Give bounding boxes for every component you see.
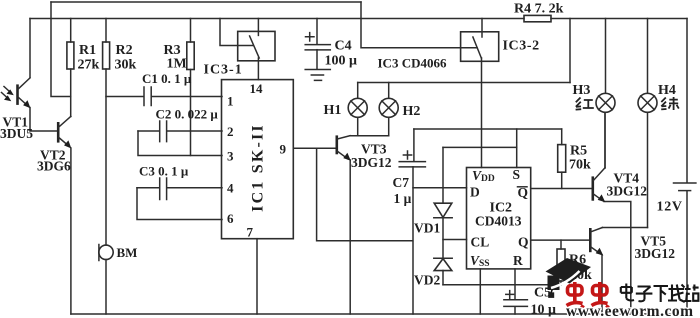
lamp H3 xyxy=(596,93,615,112)
label C7 value xyxy=(393,175,412,206)
IC2 label IC2 xyxy=(490,201,513,216)
label H3 xyxy=(573,83,591,98)
IC2 label VSS xyxy=(470,253,490,269)
svg-text:H2: H2 xyxy=(403,104,421,119)
IC1 pin 3 xyxy=(227,149,234,164)
wire battery negative down xyxy=(686,191,688,314)
svg-text:CL: CL xyxy=(471,235,490,250)
wire H1 bottom xyxy=(357,118,359,136)
IC1 pin 14 xyxy=(250,81,264,96)
IC2 label Q xyxy=(518,235,529,250)
label H1 xyxy=(324,103,342,118)
wire H2 top xyxy=(388,83,390,99)
wire R4 node drop to lamp bar xyxy=(569,19,571,83)
svg-text:C3 0. 1 μ: C3 0. 1 μ xyxy=(139,164,189,179)
resistor R6 xyxy=(557,249,565,281)
svg-text:BM: BM xyxy=(117,245,138,260)
wire IC1 pin9 to VT3 base xyxy=(293,147,336,149)
svg-text:30k: 30k xyxy=(115,58,137,73)
IC1 pin 7 xyxy=(247,225,254,240)
label R5 70k xyxy=(569,144,591,173)
watermark graduation cap xyxy=(546,258,592,298)
wire VT1 emitter to VT2 base xyxy=(30,108,58,132)
IC2 label S xyxy=(513,167,521,182)
label VT5 3DG12 xyxy=(635,234,676,262)
analog switch IC3-1 box xyxy=(238,31,275,60)
wire pin9 node down to D/CL row xyxy=(317,148,413,241)
svg-text:1M: 1M xyxy=(167,57,187,72)
label IC3 CD4066 xyxy=(378,56,447,71)
wire R2 bottom to BM xyxy=(105,69,107,245)
label R2 30k xyxy=(115,43,137,73)
svg-text:2: 2 xyxy=(227,124,234,139)
svg-text:6: 6 xyxy=(227,211,234,226)
resistor R3 xyxy=(187,42,194,70)
svg-text:1 μ: 1 μ xyxy=(394,191,412,206)
label VT2 3DG6 xyxy=(37,148,71,174)
ground (C4) xyxy=(305,70,330,81)
wire H3 to VT4 collector xyxy=(604,113,606,168)
svg-text:IC3 CD4066: IC3 CD4066 xyxy=(378,56,447,71)
label C2 value xyxy=(156,107,219,122)
IC2 label CL xyxy=(471,235,490,250)
wire lamp supply bar xyxy=(358,82,570,84)
lamp H2 xyxy=(379,98,398,117)
wire CL pin xyxy=(443,239,467,241)
svg-text:R1: R1 xyxy=(79,43,96,58)
wire R3 top xyxy=(190,19,192,43)
svg-text:10 μ: 10 μ xyxy=(531,303,557,318)
lamp H1 xyxy=(348,98,367,117)
wire VT2 emitter down xyxy=(70,148,72,314)
svg-text:IC1 SK-II: IC1 SK-II xyxy=(250,123,267,212)
svg-text:3DG12: 3DG12 xyxy=(607,184,648,199)
label R6 10k xyxy=(569,253,592,284)
label C5 value xyxy=(531,286,557,318)
wire IC3-1 output to IC1 pin14 xyxy=(257,58,259,80)
svg-text:R2: R2 xyxy=(116,43,133,58)
wire IC1 pin7 to bottom rail xyxy=(256,239,258,314)
label C3 value xyxy=(139,164,189,179)
IC2 label VDD xyxy=(472,168,495,184)
label R4 7.2k xyxy=(514,2,564,17)
svg-text:VD1: VD1 xyxy=(414,221,440,236)
wire VT5 collector row xyxy=(602,227,647,229)
wire top rail 1 xyxy=(51,1,361,3)
svg-text:D: D xyxy=(470,185,480,200)
wire C3 loop to pin6 xyxy=(137,188,222,220)
svg-text:IC3-2: IC3-2 xyxy=(503,39,540,54)
wire rail1 drop to IC3-2 input xyxy=(361,2,477,48)
wire VT3 emitter down xyxy=(349,160,351,314)
wire Q to VT5 base xyxy=(531,239,590,241)
phototransistor VT1 xyxy=(2,78,31,108)
svg-text:1: 1 xyxy=(227,94,234,109)
IC2 label CD4013 xyxy=(475,214,522,229)
wire R5 top lead xyxy=(561,129,563,145)
wire row y147.4 VD1 to S line xyxy=(443,146,517,148)
svg-text:H3: H3 xyxy=(573,83,591,98)
wire C7 minus down to rail xyxy=(412,167,414,314)
lamp H4 xyxy=(638,93,657,112)
wire IC3-2 control stub xyxy=(481,19,483,38)
capacitor C2 xyxy=(160,121,167,142)
svg-text:C1 0. 1 μ: C1 0. 1 μ xyxy=(142,71,192,86)
svg-text:S: S xyxy=(513,167,521,182)
wire rail1 left drop x=51 xyxy=(51,2,71,97)
svg-text:SS: SS xyxy=(479,259,490,269)
label VD2 xyxy=(414,273,440,288)
wire bottom node row y284.8 xyxy=(443,284,561,286)
wire rail2 to IC3-1 input xyxy=(220,19,253,46)
wire C4 top xyxy=(316,19,318,45)
svg-text:70k: 70k xyxy=(569,158,591,173)
wire VT5 emitter down xyxy=(601,255,603,314)
svg-text:DD: DD xyxy=(481,174,495,184)
watermark bug 2 (chong) xyxy=(592,282,610,308)
wire C7 plus riser xyxy=(413,129,415,161)
capacitor C1 xyxy=(144,87,151,106)
watermark text dianzixiazaizhan xyxy=(621,284,699,303)
wire VT4 emitter node down to rail xyxy=(604,202,631,315)
label IC1 SK-II (rotated) xyxy=(250,123,267,212)
svg-text:4: 4 xyxy=(227,181,234,196)
wire node row y129 C7 to R5 xyxy=(414,128,562,130)
capacitor C5 (electrolytic, plus sign) xyxy=(504,291,528,307)
svg-text:Q: Q xyxy=(518,235,529,250)
transistor VT5 xyxy=(590,228,603,256)
wire R2 top xyxy=(105,19,107,43)
svg-text:100 μ: 100 μ xyxy=(325,54,358,69)
IC1 pin 6 xyxy=(227,211,234,226)
wire C2 loop to pin3 xyxy=(138,131,222,156)
wire bottom rail xyxy=(71,313,687,315)
label BM xyxy=(117,245,138,260)
svg-text:www.eeworm.com: www.eeworm.com xyxy=(566,303,694,318)
label C4 value xyxy=(325,39,358,69)
watermark bug 1 (chong) xyxy=(567,282,585,308)
battery GB 12V xyxy=(674,183,696,191)
svg-text:3DU5: 3DU5 xyxy=(0,126,33,141)
wire VD1 top lead xyxy=(442,147,444,203)
label R1 27k xyxy=(78,43,100,73)
label VT4 3DG12 xyxy=(607,171,648,199)
svg-text:H1: H1 xyxy=(324,103,342,118)
wire C5 to rail xyxy=(514,307,516,314)
wire H3 top xyxy=(605,19,607,94)
svg-text:27k: 27k xyxy=(78,58,100,73)
label VT1 3DU5 xyxy=(0,115,33,142)
svg-text:12V: 12V xyxy=(657,200,683,215)
wire BM to bottom rail xyxy=(105,260,107,315)
wire IC1 pin2 through C2 xyxy=(138,130,222,132)
label IC3-1 xyxy=(204,63,243,78)
svg-text:R: R xyxy=(513,253,523,268)
wire D pin xyxy=(413,187,467,189)
capacitor C4 (electrolytic, plus sign) xyxy=(305,33,330,50)
svg-text:3DG12: 3DG12 xyxy=(351,155,392,170)
diode VD2 xyxy=(434,258,452,270)
label H4 xyxy=(658,83,676,98)
wire H4 top xyxy=(647,19,649,94)
wire lamp bottom bar xyxy=(350,135,389,137)
label H2 xyxy=(403,104,421,119)
wire R1 top xyxy=(70,19,72,43)
wire top rail 2 right of R4 xyxy=(551,18,687,20)
resistor R2 xyxy=(103,42,110,69)
wire R6 bottom lead xyxy=(560,281,562,285)
svg-text:3DG12: 3DG12 xyxy=(635,246,676,261)
wire IC1 pin4 through C3 xyxy=(137,187,222,189)
wire Q-bar to VT4 base xyxy=(531,188,592,190)
wire VD1 to CL row xyxy=(442,218,444,258)
wire S pin vertical xyxy=(516,129,518,168)
microphone BM xyxy=(99,245,113,261)
IC1 box SK-II xyxy=(222,80,294,239)
wire R pin to C5 xyxy=(514,269,516,299)
label 12V xyxy=(657,200,683,215)
IC2 label D xyxy=(470,185,480,200)
watermark url www.eeworm.com xyxy=(566,303,694,318)
svg-text:3: 3 xyxy=(227,149,234,164)
wire IC1 pin1 from R2 line through C1 xyxy=(106,96,222,98)
label VD1 xyxy=(414,221,440,236)
label R3 1M xyxy=(164,43,187,72)
wire VD2 bottom lead xyxy=(442,271,444,285)
transistor VT3 xyxy=(337,135,351,160)
svg-text:3DG6: 3DG6 xyxy=(37,159,71,174)
IC2 label R xyxy=(513,253,523,268)
wire C4 to ground xyxy=(316,50,318,69)
IC2 box CD4013 xyxy=(467,168,531,269)
transistor VT4 xyxy=(593,113,606,202)
svg-text:H4: H4 xyxy=(658,83,676,98)
svg-text:R4 7. 2k: R4 7. 2k xyxy=(514,2,564,17)
svg-text:R5: R5 xyxy=(570,144,587,159)
resistor R5 xyxy=(558,145,566,173)
wire VSS pin to rail xyxy=(479,269,481,314)
wire H4 bottom xyxy=(647,113,649,228)
svg-text:C2 0. 022 μ: C2 0. 022 μ xyxy=(156,107,219,122)
label IC3-2 xyxy=(503,39,540,54)
wire battery positive drop xyxy=(686,19,688,183)
wire R6 top lead xyxy=(560,240,562,249)
wire R5 bottom lead xyxy=(561,172,563,188)
resistor R1 xyxy=(67,42,74,69)
resistor R4 xyxy=(524,15,551,21)
svg-text:C7: C7 xyxy=(393,175,410,190)
wire R3 bottom to pin3 line xyxy=(190,70,192,156)
IC1 pin 2 xyxy=(227,124,234,139)
label C1 value xyxy=(142,71,192,86)
svg-text:9: 9 xyxy=(280,142,287,157)
svg-text:VD2: VD2 xyxy=(414,273,440,288)
transistor VT2 xyxy=(58,116,71,148)
svg-text:IC3-1: IC3-1 xyxy=(204,63,243,78)
analog switch IC3-2 box xyxy=(461,32,499,62)
wire IC3-1 control stub xyxy=(257,19,259,36)
label green (lv) character xyxy=(661,97,679,110)
capacitor C7 (electrolytic, plus sign) xyxy=(399,151,425,167)
wire R1 bottom to VT2 collector node xyxy=(70,69,72,117)
svg-text:CD4013: CD4013 xyxy=(475,214,522,229)
label red (hong) character xyxy=(576,98,594,110)
label VT3 3DG12 xyxy=(351,142,392,171)
IC2 label Q-bar xyxy=(518,185,529,200)
wire H1 top xyxy=(357,83,359,99)
svg-text:14: 14 xyxy=(250,81,264,96)
svg-text:C4: C4 xyxy=(335,39,352,54)
IC1 pin 9 xyxy=(280,142,287,157)
wire IC3-2 output to IC2 VDD xyxy=(481,58,483,168)
wire H2 bottom xyxy=(388,118,390,136)
IC1 pin 4 xyxy=(227,181,234,196)
IC1 pin 1 xyxy=(227,94,234,109)
capacitor C3 xyxy=(160,178,167,200)
svg-text:7: 7 xyxy=(247,225,254,240)
wire VT1 collector to rail2 xyxy=(29,19,31,78)
wire top rail 2 left of R4 xyxy=(30,18,524,20)
diode VD1 xyxy=(434,203,452,218)
